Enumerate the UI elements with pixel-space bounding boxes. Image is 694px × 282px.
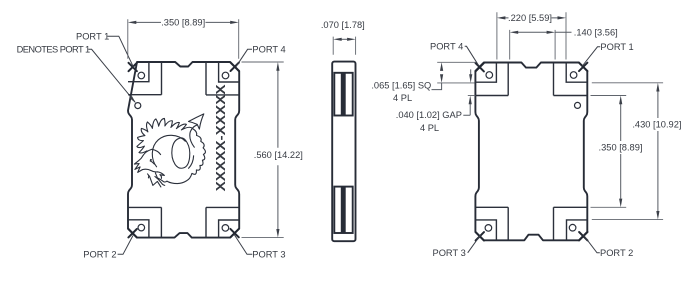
svg-text:PORT 4: PORT 4: [430, 42, 463, 52]
svg-text:PORT 4: PORT 4: [252, 45, 285, 55]
side view body outline: [332, 62, 355, 242]
X mark top-left chamfer: [129, 63, 137, 71]
svg-text:.350 [8.89]: .350 [8.89]: [161, 18, 205, 28]
dimension .430 [10.92] (bottom view right): [592, 83, 682, 220]
X mark top-left chamfer (bottom view): [476, 63, 484, 71]
dimension .140 [3.56] (bottom view): [510, 28, 618, 60]
bottom window verticals and shoulder lines (bottom view): [475, 207, 587, 240]
X mark top-right chamfer (bottom view): [579, 63, 587, 71]
dimension .350 [8.89] top (left view): [128, 18, 239, 59]
svg-text:.560 [14.22]: .560 [14.22]: [254, 150, 303, 160]
dimension .040 [1.02] GAP 4 PL: [396, 69, 476, 133]
label PORT 4 (bottom view): [430, 42, 479, 66]
pad hole circle port3 (bottom-left, bottom view): [485, 225, 492, 232]
X mark bottom-left chamfer (bottom view): [476, 232, 484, 240]
dimension .560 [14.22] (left view right side): [242, 62, 303, 238]
svg-text:.070 [1.78]: .070 [1.78]: [321, 20, 365, 30]
svg-text:.430 [10.92]: .430 [10.92]: [632, 120, 681, 130]
label PORT 2 (bottom view): [584, 235, 634, 258]
svg-text:PORT 1: PORT 1: [600, 42, 633, 52]
pad hole circle port1 (top-left): [138, 72, 145, 79]
pad corner lines (bottom view): [475, 63, 587, 241]
dimension .070 [1.78] (side view): [321, 20, 365, 55]
label DENOTES PORT 1: [17, 45, 136, 104]
svg-text:4 PL: 4 PL: [393, 93, 412, 103]
pad hole circle port1 (top-right, bottom view): [570, 72, 577, 79]
label PORT 3 (left view): [234, 235, 285, 260]
package body outline (bottom view): [475, 63, 587, 241]
dimension .220 [5.59] (bottom view top): [497, 12, 566, 59]
pad corner lines: [128, 62, 239, 238]
svg-text:.350 [8.89]: .350 [8.89]: [599, 143, 643, 153]
svg-text:.220 [5.59]: .220 [5.59]: [508, 13, 552, 23]
port 1 indicator dot (bottom view): [575, 102, 581, 108]
port 1 indicator dot: [135, 103, 141, 109]
svg-text:.040 [1.02] GAP: .040 [1.02] GAP: [396, 110, 462, 120]
pad hole circle port3 (bottom-right): [222, 225, 229, 232]
side view upper terminal block: [334, 73, 352, 116]
svg-text:PORT 2: PORT 2: [83, 250, 116, 260]
dimension .065 [1.65] SQ 4 PL: [371, 62, 476, 103]
X mark bottom-right chamfer (bottom view): [579, 232, 587, 240]
svg-text:PORT 2: PORT 2: [600, 248, 633, 258]
top window verticals and shoulder lines: [128, 63, 239, 95]
label PORT 1 (left view): [76, 32, 134, 68]
label PORT 3 (bottom view): [433, 235, 481, 258]
pad hole circle port2 (bottom-left): [138, 224, 145, 231]
part number text XXXXX-XXXXX (rotated): [213, 84, 228, 191]
dragon logo: [134, 114, 205, 187]
dimension .350 [8.89] (bottom view right): [591, 96, 643, 208]
label PORT 4 (left view): [236, 45, 286, 67]
svg-text:PORT 3: PORT 3: [433, 248, 466, 258]
top window verticals and shoulder lines (bottom view): [475, 63, 587, 96]
side view lower terminal block: [334, 187, 352, 233]
X mark bottom-right chamfer: [230, 229, 238, 237]
svg-text:PORT 3: PORT 3: [252, 250, 285, 260]
svg-text:DENOTES PORT 1: DENOTES PORT 1: [17, 45, 90, 55]
package body outline (top view): [128, 62, 239, 238]
X mark top-right chamfer: [231, 63, 239, 71]
pad hole circle port4 (top-right): [222, 72, 229, 79]
X mark bottom-left chamfer: [128, 229, 136, 237]
label PORT 1 (bottom view): [582, 42, 633, 66]
svg-text:.065 [1.65] SQ: .065 [1.65] SQ: [371, 80, 431, 90]
svg-text:PORT 1: PORT 1: [76, 32, 109, 42]
svg-text:.140 [3.56]: .140 [3.56]: [574, 28, 618, 38]
pad hole circle port2 (bottom-right, bottom view): [569, 224, 576, 231]
svg-text:XXXXX-XXXXX: XXXXX-XXXXX: [213, 84, 228, 191]
label PORT 2 (left view): [83, 236, 133, 260]
pad hole circle port4 (top-left, bottom view): [486, 72, 493, 79]
bottom window verticals and shoulder lines: [128, 207, 239, 237]
svg-text:4 PL: 4 PL: [420, 123, 439, 133]
